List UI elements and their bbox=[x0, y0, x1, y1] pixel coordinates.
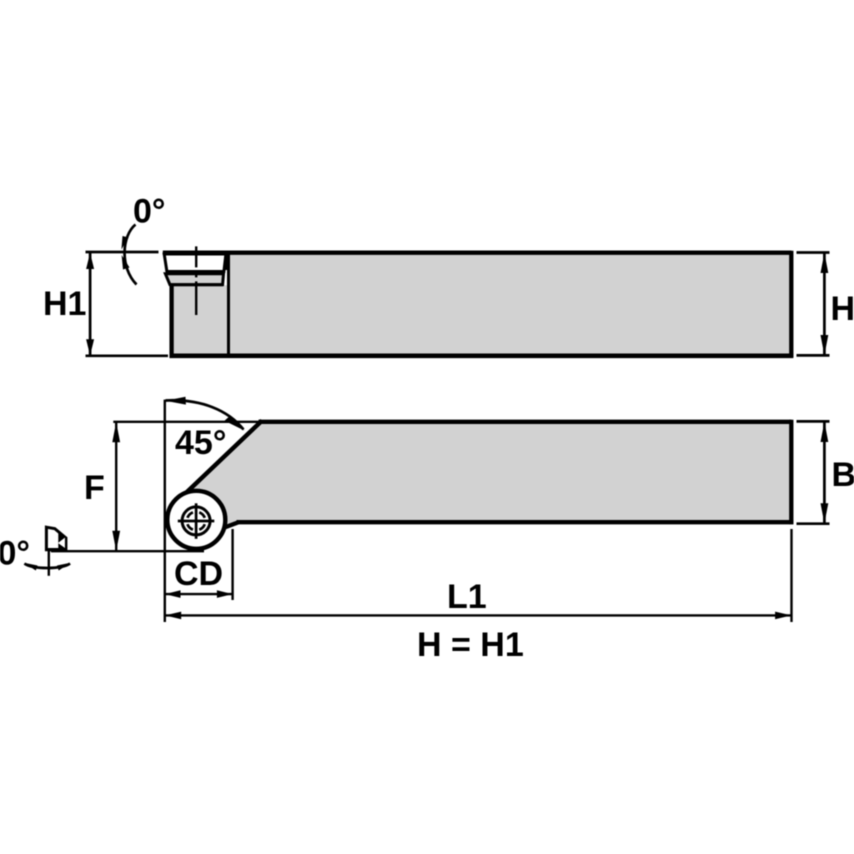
svg-text:H1: H1 bbox=[43, 285, 86, 323]
svg-text:F: F bbox=[84, 469, 105, 507]
svg-text:0°: 0° bbox=[133, 193, 166, 231]
H arrow down bbox=[821, 335, 829, 355]
H arrow up bbox=[821, 253, 829, 273]
dimension H extension line bottom bbox=[797, 354, 830, 357]
bottom arc left arrow bbox=[24, 563, 38, 571]
glyph bottom thick bbox=[48, 548, 66, 551]
insert bottom line bbox=[170, 283, 223, 286]
dimension H1 line bbox=[89, 253, 92, 355]
dimension H1 extension line bottom bbox=[86, 354, 169, 357]
H1 arrow up bbox=[86, 253, 94, 269]
bottom edge lead-in bbox=[225, 522, 239, 527]
insert pocket back wall bbox=[227, 253, 230, 356]
45 arc left arrow bbox=[165, 397, 186, 405]
svg-text:45°: 45° bbox=[175, 424, 226, 462]
svg-text:L1: L1 bbox=[447, 578, 487, 616]
body left edge bbox=[169, 285, 173, 358]
svg-text:CD: CD bbox=[174, 555, 223, 593]
black gap behind insert top right bbox=[223, 253, 229, 270]
insert centerline bbox=[195, 246, 197, 315]
body bottom edge bbox=[170, 353, 794, 358]
B arrow up bbox=[821, 422, 829, 442]
H1 arrow down bbox=[86, 339, 94, 355]
insert screw head outer bbox=[182, 507, 210, 535]
svg-text:B: B bbox=[832, 456, 854, 494]
left vertical extension line bbox=[164, 400, 166, 622]
dimension L1 right extension bbox=[790, 529, 792, 622]
screw cross horizontal bbox=[178, 520, 215, 523]
dimension F line bbox=[115, 422, 117, 551]
45 arc right arrow bbox=[225, 416, 245, 431]
F arrow up bbox=[112, 422, 120, 442]
shank right edge bbox=[789, 420, 793, 524]
toolholder body side view fill bbox=[172, 253, 792, 356]
0 deg arc (top) bbox=[125, 225, 137, 285]
45 deg chamfer edge bbox=[178, 421, 262, 501]
dimension H line bbox=[823, 253, 826, 355]
F arrow down bbox=[112, 531, 120, 551]
CD arrow left bbox=[165, 590, 181, 598]
dimension H1 extension line top bbox=[86, 251, 159, 254]
insert shim (gray) bbox=[165, 274, 223, 285]
body right edge bbox=[789, 251, 793, 358]
CD arrow right bbox=[217, 590, 233, 598]
dimension B line bbox=[823, 422, 826, 523]
svg-text:H = H1: H = H1 bbox=[417, 626, 524, 664]
svg-text:H: H bbox=[831, 290, 854, 328]
screw recess arcs bbox=[187, 512, 204, 529]
dimension B extension top bbox=[797, 420, 830, 423]
shank plan view fill bbox=[175, 421, 792, 528]
0 deg arc arrow lower bbox=[122, 255, 130, 270]
svg-text:0°: 0° bbox=[0, 535, 30, 573]
45 deg arc bbox=[166, 400, 244, 429]
round insert circle bbox=[167, 491, 225, 549]
dimension H extension line top bbox=[797, 251, 830, 254]
tool tip line bbox=[51, 550, 204, 552]
L1 arrow left bbox=[165, 612, 181, 620]
dimension B extension bottom bbox=[797, 522, 830, 525]
dimension CD right extension bbox=[231, 529, 233, 600]
screw cross vertical bbox=[195, 503, 198, 539]
insert mid line bbox=[166, 270, 225, 274]
0 deg arc arrow upper bbox=[121, 236, 128, 250]
body top edge bbox=[225, 251, 792, 255]
shank bottom edge bbox=[237, 520, 794, 524]
L1 arrow right bbox=[775, 612, 791, 620]
small insert end glyph bbox=[46, 527, 66, 550]
B arrow down bbox=[821, 503, 829, 523]
bottom arc right arrow bbox=[57, 563, 71, 571]
glyph inner black mass bbox=[53, 527, 67, 550]
glyph extension line bbox=[48, 549, 50, 576]
glyph notch bbox=[58, 538, 65, 548]
bottom 0 deg arc bbox=[25, 564, 71, 569]
insert top edge bbox=[163, 251, 227, 255]
dimension CD line bbox=[165, 593, 233, 595]
top extension line (F / 45deg) bbox=[113, 421, 259, 423]
shank top edge bbox=[259, 420, 792, 424]
dimension L1 line bbox=[165, 614, 792, 616]
insert side view (white top) bbox=[164, 254, 226, 272]
